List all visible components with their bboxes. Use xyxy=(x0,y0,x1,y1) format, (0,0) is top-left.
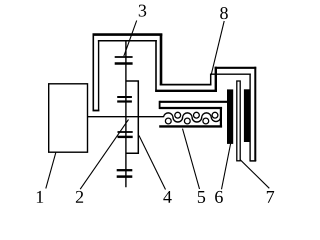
housing 8 dip outer bottom xyxy=(155,90,217,92)
housing 8 dip inner bottom xyxy=(160,84,212,86)
label 5 xyxy=(198,191,205,203)
roller ball t3 xyxy=(212,112,218,118)
channel top line (rail bottom) xyxy=(159,107,222,109)
disc bar 6 (filled) xyxy=(227,89,233,143)
housing 8 right inner wall xyxy=(249,74,251,162)
housing 8 step inner wall xyxy=(210,74,212,86)
label 3 xyxy=(139,5,146,17)
label 2 xyxy=(76,191,83,203)
housing 8 top outer edge xyxy=(93,33,163,36)
housing 8 dip left wall (outer-top) xyxy=(160,34,163,86)
leader line 6 xyxy=(222,143,231,189)
roller ball t1 xyxy=(175,112,181,118)
housing 8 dip left wall (inner-top) xyxy=(155,40,157,92)
rail closed left end xyxy=(159,101,161,109)
housing 8 top inner edge xyxy=(98,40,157,42)
label 4 xyxy=(163,191,171,203)
clutch plate B bottom bar xyxy=(117,100,132,102)
roller serpentine spring xyxy=(164,113,221,122)
label 6 xyxy=(215,191,223,203)
housing 8 step outer wall xyxy=(215,67,217,92)
housing 8 hook closed end xyxy=(93,110,100,112)
channel bottom line 5 xyxy=(159,125,222,127)
leader line 1 xyxy=(46,153,56,189)
clutch plate B top bar xyxy=(117,96,132,98)
housing 8 right outer wall xyxy=(254,67,256,161)
leader line 5 xyxy=(183,129,200,189)
clutch plate C top bar xyxy=(118,131,133,133)
leader line 7 xyxy=(240,160,269,189)
leader line 2 xyxy=(80,120,128,190)
label 1 xyxy=(37,191,43,203)
disc bar B (filled) xyxy=(244,89,250,142)
wire: axis shaft line xyxy=(88,116,164,118)
roller ball b2 xyxy=(184,118,190,124)
housing 8 hook outer wall xyxy=(92,34,94,111)
housing 8 hook inner wall xyxy=(98,40,100,111)
leader line 8 xyxy=(211,21,224,75)
roller ball b3 xyxy=(203,118,209,124)
label 8 xyxy=(220,7,228,19)
rail top line xyxy=(160,101,228,103)
roller ball b1 xyxy=(165,118,171,124)
leader line 4 xyxy=(139,136,166,190)
roller ball t2 xyxy=(194,112,200,118)
clutch plate D bottom bar xyxy=(117,175,133,178)
frame right of shaft 4 xyxy=(126,81,138,153)
label 7 xyxy=(267,191,274,203)
wire: vertical shaft 2 xyxy=(125,41,127,187)
housing 8 step top inner xyxy=(210,73,251,75)
leader line 3 xyxy=(124,21,137,57)
clutch plate 3 top bar xyxy=(115,56,133,58)
channel right wall xyxy=(220,107,222,128)
clutch plate 3 bottom bar xyxy=(115,62,133,65)
armature plate 7 (outline) xyxy=(237,81,240,161)
clutch plate D top bar xyxy=(117,169,133,171)
box 1 (motor) xyxy=(49,84,88,152)
clutch plate C bottom bar xyxy=(118,136,133,138)
housing 8 step top outer xyxy=(215,67,257,69)
housing 8 right wall closed bottom xyxy=(250,160,257,162)
